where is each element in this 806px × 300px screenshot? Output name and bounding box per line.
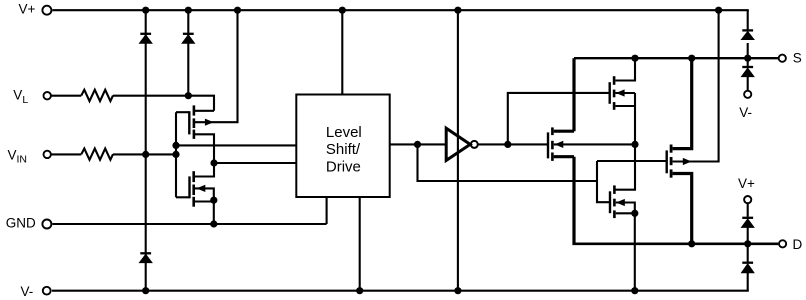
wire M5 source arm: [616, 212, 635, 214]
transistor M1 channel bars (PMOS): [193, 105, 196, 138]
wire M6 body arm: [673, 10, 719, 161]
node M2 source/body: [210, 197, 217, 204]
terminal S: [779, 55, 786, 62]
wire M4 drain arm to S: [615, 58, 635, 80]
resistor R1 (VL): [81, 90, 113, 101]
node top rail / block stub: [339, 7, 346, 14]
wire bottom V- rail: [52, 290, 749, 292]
arrow M5 body (points left): [616, 199, 625, 206]
transistor M3 channel bars: [551, 127, 554, 160]
wire S column upper (thick): [572, 58, 575, 131]
svg-text:Level: Level: [326, 124, 362, 141]
svg-text:V+: V+: [19, 2, 36, 17]
transistor M5 channel bars: [613, 185, 616, 218]
wire branch down to gate drive row: [418, 144, 598, 181]
wire M2 drain arm: [195, 163, 214, 177]
node S / clamp column: [744, 55, 751, 62]
wire M3 drain arm to S (thick): [554, 130, 574, 133]
transistor M6 channel bars: [670, 145, 673, 178]
wire M5 column to V- rail: [634, 213, 636, 290]
wire M2 body arm: [195, 188, 214, 224]
wire S clamp mid: [747, 43, 749, 68]
terminal V+: [42, 6, 51, 15]
node M1/M2 junction (line C): [210, 159, 217, 166]
wire S clamp to V- stub: [747, 76, 749, 90]
wire top V+ rail: [52, 9, 748, 11]
terminal D: [779, 240, 786, 247]
wire M4 body arm: [615, 92, 635, 94]
wire gate drive vertical: [597, 161, 610, 202]
wire block top stub to V+: [341, 10, 343, 94]
wire M3 body arm: [554, 143, 635, 145]
transistor M4 channel bars: [613, 76, 616, 110]
wire VL to resistor: [51, 95, 81, 97]
transistor M2 channel bars (NMOS): [192, 171, 195, 207]
arrow M1 body (points right): [205, 119, 214, 126]
wire VIN to resistor: [51, 153, 81, 155]
inverter U2 triangle: [446, 128, 470, 160]
diode D1 (V+ clamp col 1): [140, 34, 152, 43]
node bottom rail / M5 column: [631, 287, 638, 294]
wire D clamp column lower: [747, 244, 749, 263]
svg-text:V-: V-: [739, 105, 752, 120]
wire diode column 2: [187, 10, 189, 96]
node top rail / diode col 1: [142, 7, 149, 14]
wire diode to V- rail: [747, 272, 749, 291]
node S / M4 drain: [631, 55, 638, 62]
svg-text:V+: V+: [738, 176, 755, 191]
node top rail / M1 body: [234, 7, 241, 14]
terminal GND: [42, 220, 51, 229]
wire diode to D line: [747, 227, 749, 244]
wire M1 gate lead: [176, 111, 189, 113]
node top rail / diode col 2: [185, 7, 192, 14]
transistor M1 gate bar: [188, 111, 190, 134]
arrow M2 body (points left): [197, 185, 206, 192]
svg-text:S: S: [793, 51, 802, 66]
terminal VL: [44, 92, 51, 99]
svg-text:V-: V-: [21, 284, 34, 299]
wire M2 source arm: [195, 200, 214, 202]
transistor M2 gate bar: [188, 176, 190, 198]
wire line C to block: [214, 162, 296, 164]
wire M5 body arm: [616, 203, 635, 214]
wire output up to M4 gate: [508, 93, 610, 144]
diode D6 (D to V+ stub): [742, 218, 754, 228]
block U1 Level Shift/Drive: [296, 95, 389, 198]
wire S clamp column upper: [747, 10, 749, 31]
svg-text:GND: GND: [6, 216, 36, 231]
node VIN / diode col 1: [142, 151, 149, 158]
diode D5 (V- stub to S): [742, 67, 754, 77]
node bottom rail / diode col 1: [142, 287, 149, 294]
terminal V-: [43, 287, 51, 295]
node D / clamp column: [744, 240, 751, 247]
wire M6 source arm to D (thick): [673, 172, 692, 244]
wire cross vertical V+ to V-: [457, 10, 459, 291]
transistor M3 gate bar (switch NMOS): [547, 132, 549, 158]
wire M1 drain arm: [195, 110, 214, 112]
wire M4 body/source column down: [634, 93, 636, 144]
terminal VIN: [44, 151, 51, 158]
diode D2 (V- clamp col 1): [140, 253, 152, 262]
wire PMOS gate row: [597, 160, 667, 162]
wire V+ stub to diode: [747, 203, 749, 217]
arrow M6 body (points right): [683, 158, 692, 165]
node bottom rail / cross vertical: [454, 287, 461, 294]
wire VL net to M1 drain: [113, 96, 214, 111]
diode D7 (V- to D): [742, 263, 754, 273]
transistor M6 gate bar (output PMOS): [666, 150, 668, 173]
wire S line: [574, 57, 779, 59]
wire M1 source arm down to node: [195, 134, 214, 163]
node bottom rail / block stub: [356, 287, 363, 294]
node gate col / VIN: [172, 151, 179, 158]
resistor R2 (VIN): [81, 149, 113, 160]
svg-text:Drive: Drive: [326, 159, 361, 176]
node gate col / line A: [172, 142, 179, 149]
svg-text:VIN: VIN: [8, 147, 28, 165]
arrow M3 body (points left): [555, 141, 564, 148]
terminal V- stub (S side): [744, 91, 751, 98]
wire M1 body arm to V+: [195, 10, 238, 122]
wire block bottom stub to V-: [359, 197, 361, 291]
node inverter input branch: [414, 141, 421, 148]
svg-text:Shift/: Shift/: [326, 141, 361, 158]
transistor M5 gate bar (lower NMOS): [609, 191, 611, 213]
wire M2 gate lead: [176, 196, 190, 198]
wire S column lower + D line (thick): [572, 157, 575, 243]
inverter U2 bubble: [471, 141, 478, 148]
node M2 column / GND: [210, 220, 217, 227]
wire line A to block: [176, 144, 296, 146]
svg-text:D: D: [793, 237, 803, 252]
wire diode column 1: [145, 10, 147, 291]
wire VIN to gate column: [113, 153, 176, 155]
wire inverter output: [478, 143, 548, 145]
node top rail / M6 body: [715, 7, 722, 14]
terminal V+ stub (D side): [744, 196, 751, 203]
arrow M4 body (points left): [616, 89, 625, 96]
node M5 source/body: [631, 210, 638, 217]
node inverter output branch: [504, 141, 511, 148]
node S / M6 drain: [688, 55, 695, 62]
node M3 body / M4 column: [631, 141, 638, 148]
wire D line right section: [572, 243, 778, 246]
wire M4 source arm: [615, 105, 635, 107]
node D / M6 source: [688, 240, 695, 247]
wire GND line: [52, 223, 326, 225]
wire block bottom stub to GND: [326, 197, 328, 224]
wire column down to M5 drain: [615, 144, 635, 189]
diode D4 (S to V+): [742, 30, 754, 39]
node top rail / cross vertical: [454, 7, 461, 14]
diode D3 (V+ clamp col 2): [182, 34, 194, 43]
wire M6 drain arm to S (thick): [673, 58, 692, 150]
transistor M4 gate bar (top right NMOS): [609, 82, 611, 104]
svg-text:VL: VL: [13, 88, 28, 107]
node VL / diode col 2: [185, 92, 192, 99]
wire left CMOS gate vertical: [175, 112, 177, 197]
wire block output to inverter: [390, 143, 445, 145]
wire M3 source arm to D (thick): [554, 155, 574, 158]
